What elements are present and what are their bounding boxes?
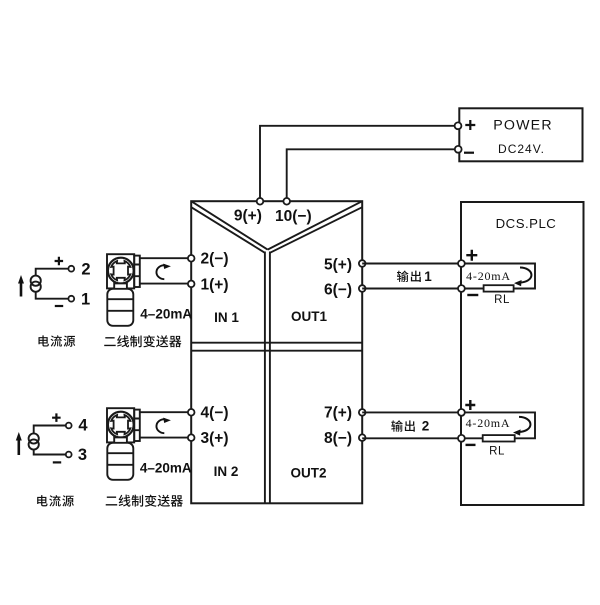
svg-text:RL: RL — [494, 294, 510, 306]
wire terminal 9 to power + — [260, 126, 455, 200]
current source 2 wires — [34, 426, 66, 455]
wire terminal 10 to power - — [287, 149, 455, 200]
label dianliuyuan current source 1 — [38, 335, 75, 346]
power - sign — [464, 152, 474, 154]
DCS loop 2 arrow — [519, 417, 530, 432]
label dianliuyuan current source 2 — [37, 495, 74, 506]
current source 2 - sign — [53, 461, 61, 463]
DCS - sign output 1 — [467, 294, 478, 296]
transmitter T2 head flange — [107, 408, 140, 442]
wire terminal 6 to DCS - — [362, 288, 458, 290]
svg-text:6(−): 6(−) — [324, 281, 352, 298]
isolator terminal 7 — [359, 409, 366, 416]
isolator V divider right diagonals — [268, 201, 363, 253]
wire transmitter T1 to terminal 1 — [140, 283, 188, 285]
wire transmitter T2 to terminal 4 — [140, 411, 188, 413]
wire terminal 7 to DCS + — [362, 411, 458, 413]
svg-text:4–20mA: 4–20mA — [140, 460, 192, 475]
current source 1 terminal 1 — [68, 296, 74, 302]
svg-text:2: 2 — [81, 260, 90, 278]
svg-text:7(+): 7(+) — [324, 405, 352, 422]
isolator horizontal double divider — [191, 343, 362, 351]
transmitter T1 loop arrow — [156, 264, 170, 280]
current source 1 symbol circles — [31, 276, 41, 286]
isolator terminal 9 — [257, 198, 264, 205]
power box — [459, 108, 582, 161]
svg-text:OUT1: OUT1 — [291, 309, 327, 324]
label shuchu1 output 1 — [397, 271, 421, 282]
current source 1 terminal 2 — [68, 266, 74, 272]
DCS loop 1 resistor RL — [484, 285, 514, 291]
isolator terminal 6 — [359, 285, 366, 292]
transmitter T1 body — [107, 289, 133, 326]
isolator terminal 5 — [359, 260, 366, 267]
svg-text:1(+): 1(+) — [201, 276, 229, 293]
isolator terminal 3 — [188, 434, 195, 441]
svg-text:DCS.PLC: DCS.PLC — [496, 216, 557, 231]
current source 2 symbol circles — [29, 433, 39, 443]
svg-text:4(−): 4(−) — [201, 405, 229, 422]
isolator middle vertical double divider — [265, 252, 270, 504]
current source 2 + sign — [52, 413, 61, 422]
isolator V divider left diagonals — [191, 201, 267, 253]
svg-text:1: 1 — [424, 269, 432, 284]
DCS + sign output 2 — [465, 400, 475, 410]
DCS terminal + output 2 — [458, 409, 465, 416]
isolator terminal 8 — [359, 434, 366, 441]
svg-text:4-20mA: 4-20mA — [466, 269, 511, 283]
svg-text:4–20mA: 4–20mA — [140, 306, 192, 321]
svg-text:8(−): 8(−) — [324, 430, 352, 447]
svg-text:2(−): 2(−) — [201, 251, 229, 268]
transmitter T2 neck — [114, 437, 127, 443]
current source 1 arrow — [20, 283, 23, 297]
svg-text:1: 1 — [81, 291, 90, 309]
svg-text:5(+): 5(+) — [324, 257, 352, 274]
current source 2 terminal 4 — [66, 423, 72, 429]
DCS load loop 2 — [461, 412, 535, 438]
wire terminal 5 to DCS + — [362, 263, 458, 265]
isolator terminal 4 — [188, 409, 195, 416]
wire transmitter T1 to terminal 2 — [140, 257, 188, 259]
wire transmitter T2 to terminal 3 — [140, 437, 188, 439]
svg-text:OUT2: OUT2 — [290, 466, 326, 481]
svg-text:2: 2 — [422, 419, 430, 434]
svg-text:4-20mA: 4-20mA — [466, 416, 511, 430]
DCS terminal + output 1 — [458, 260, 465, 267]
current source 1 - sign — [55, 305, 63, 307]
wire terminal 8 to DCS - — [362, 437, 458, 439]
DCS + sign output 1 — [466, 250, 477, 261]
label shuchu2 output 2 — [391, 420, 415, 431]
label erxianzhi transmitter 2 — [106, 495, 183, 507]
isolator terminal 10 — [283, 198, 290, 205]
svg-text:RL: RL — [489, 445, 505, 457]
DCS - sign output 2 — [466, 444, 476, 446]
svg-text:IN 1: IN 1 — [214, 310, 239, 325]
svg-text:POWER: POWER — [493, 118, 553, 134]
transmitter T2 body — [107, 443, 133, 480]
isolator terminal 2 — [188, 255, 195, 262]
svg-text:3(+): 3(+) — [201, 430, 229, 447]
label erxianzhi transmitter 1 — [104, 335, 181, 347]
svg-text:10(−): 10(−) — [275, 208, 312, 225]
DCS loop 2 resistor RL — [483, 435, 515, 441]
svg-text:4: 4 — [78, 417, 88, 435]
DCS terminal - output 2 — [458, 435, 465, 442]
DCS loop 1 arrow — [520, 267, 531, 282]
isolator block outline — [191, 201, 362, 503]
power + sign — [465, 120, 475, 130]
current source 2 terminal 3 — [66, 452, 72, 458]
power terminal + — [455, 122, 462, 129]
svg-text:IN 2: IN 2 — [214, 464, 239, 479]
DCS.PLC box — [461, 202, 584, 505]
DCS load loop 1 — [461, 264, 535, 289]
isolator terminal 1 — [188, 281, 195, 288]
current source 1 wires — [36, 269, 69, 299]
transmitter T1 head flange — [107, 254, 140, 288]
svg-text:3: 3 — [78, 446, 87, 464]
current source 2 arrow — [17, 440, 20, 456]
current source 1 + sign — [55, 257, 64, 265]
svg-text:DC24V.: DC24V. — [498, 142, 545, 156]
transmitter T2 loop arrow — [156, 418, 170, 434]
transmitter T1 neck — [114, 283, 127, 289]
power terminal - — [455, 146, 462, 153]
DCS terminal - output 1 — [458, 285, 465, 292]
svg-text:9(+): 9(+) — [234, 207, 262, 224]
